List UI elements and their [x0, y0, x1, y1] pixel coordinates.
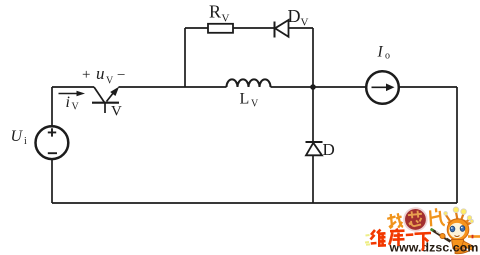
wire top rail left segment [52, 86, 94, 88]
svg-text:www.dzsc.com: www.dzsc.com [389, 241, 479, 255]
wire resistor to diode [233, 27, 274, 29]
wire current source to right rail [399, 86, 457, 88]
svg-text:V: V [72, 102, 80, 113]
svg-text:V: V [106, 76, 114, 87]
diode DV [275, 20, 289, 38]
svg-text:I: I [377, 44, 384, 61]
label RV [209, 2, 230, 25]
wire snubber top left segment [185, 27, 208, 29]
svg-text:L: L [240, 91, 250, 108]
label DV [288, 6, 309, 29]
voltage source Ui [36, 126, 69, 159]
watermark logo dzsc [365, 207, 480, 255]
svg-text:V: V [301, 17, 309, 29]
current source Io [366, 71, 399, 104]
current arrow iV [59, 91, 86, 96]
label Ui [11, 128, 28, 147]
watermark yellow glow [365, 235, 370, 245]
svg-text:i: i [66, 94, 70, 111]
wire top rail middle segment [119, 86, 227, 88]
svg-text:D: D [323, 140, 335, 159]
wire left vertical bottom [51, 159, 53, 204]
wire snubber left vertical [184, 28, 186, 87]
label iV [66, 94, 80, 113]
label + uV - [82, 64, 125, 87]
watermark text pian (片) [429, 208, 444, 227]
watermark mascot [431, 207, 480, 254]
wire left vertical top (Ui to top rail) [51, 87, 53, 127]
svg-text:o: o [385, 51, 390, 62]
watermark text zhao (找) [387, 213, 403, 229]
svg-text:V: V [251, 99, 259, 110]
svg-text:+: + [82, 67, 90, 83]
svg-text:V: V [111, 104, 122, 120]
svg-text:i: i [24, 136, 27, 147]
label LV [240, 91, 260, 110]
label Io [377, 44, 391, 62]
svg-text:D: D [288, 6, 301, 26]
watermark magnifier circle with xin (芯) [403, 207, 428, 232]
wire right vertical [456, 87, 458, 203]
wei [371, 230, 377, 244]
svg-text:V: V [222, 13, 230, 25]
resistor RV [208, 24, 233, 33]
svg-text:−: − [117, 68, 125, 84]
inductor LV [227, 79, 271, 87]
ku [389, 229, 404, 247]
wire inductor to junction [271, 86, 366, 88]
wire bottom rail [52, 202, 457, 204]
yi [406, 233, 414, 236]
svg-text:u: u [96, 64, 105, 83]
watermark text weikuyixia (维库一下) [371, 229, 432, 251]
xia [415, 233, 432, 250]
svg-text:R: R [209, 2, 221, 22]
node junction dot [310, 84, 316, 90]
diode D [306, 142, 323, 155]
wire snubber right vertical [312, 28, 314, 87]
wire diode D to bottom rail [312, 155, 314, 203]
wire diode DV to corner [289, 27, 314, 29]
transistor V [92, 87, 119, 113]
wire junction down to diode D [312, 87, 314, 142]
svg-text:U: U [11, 128, 24, 145]
